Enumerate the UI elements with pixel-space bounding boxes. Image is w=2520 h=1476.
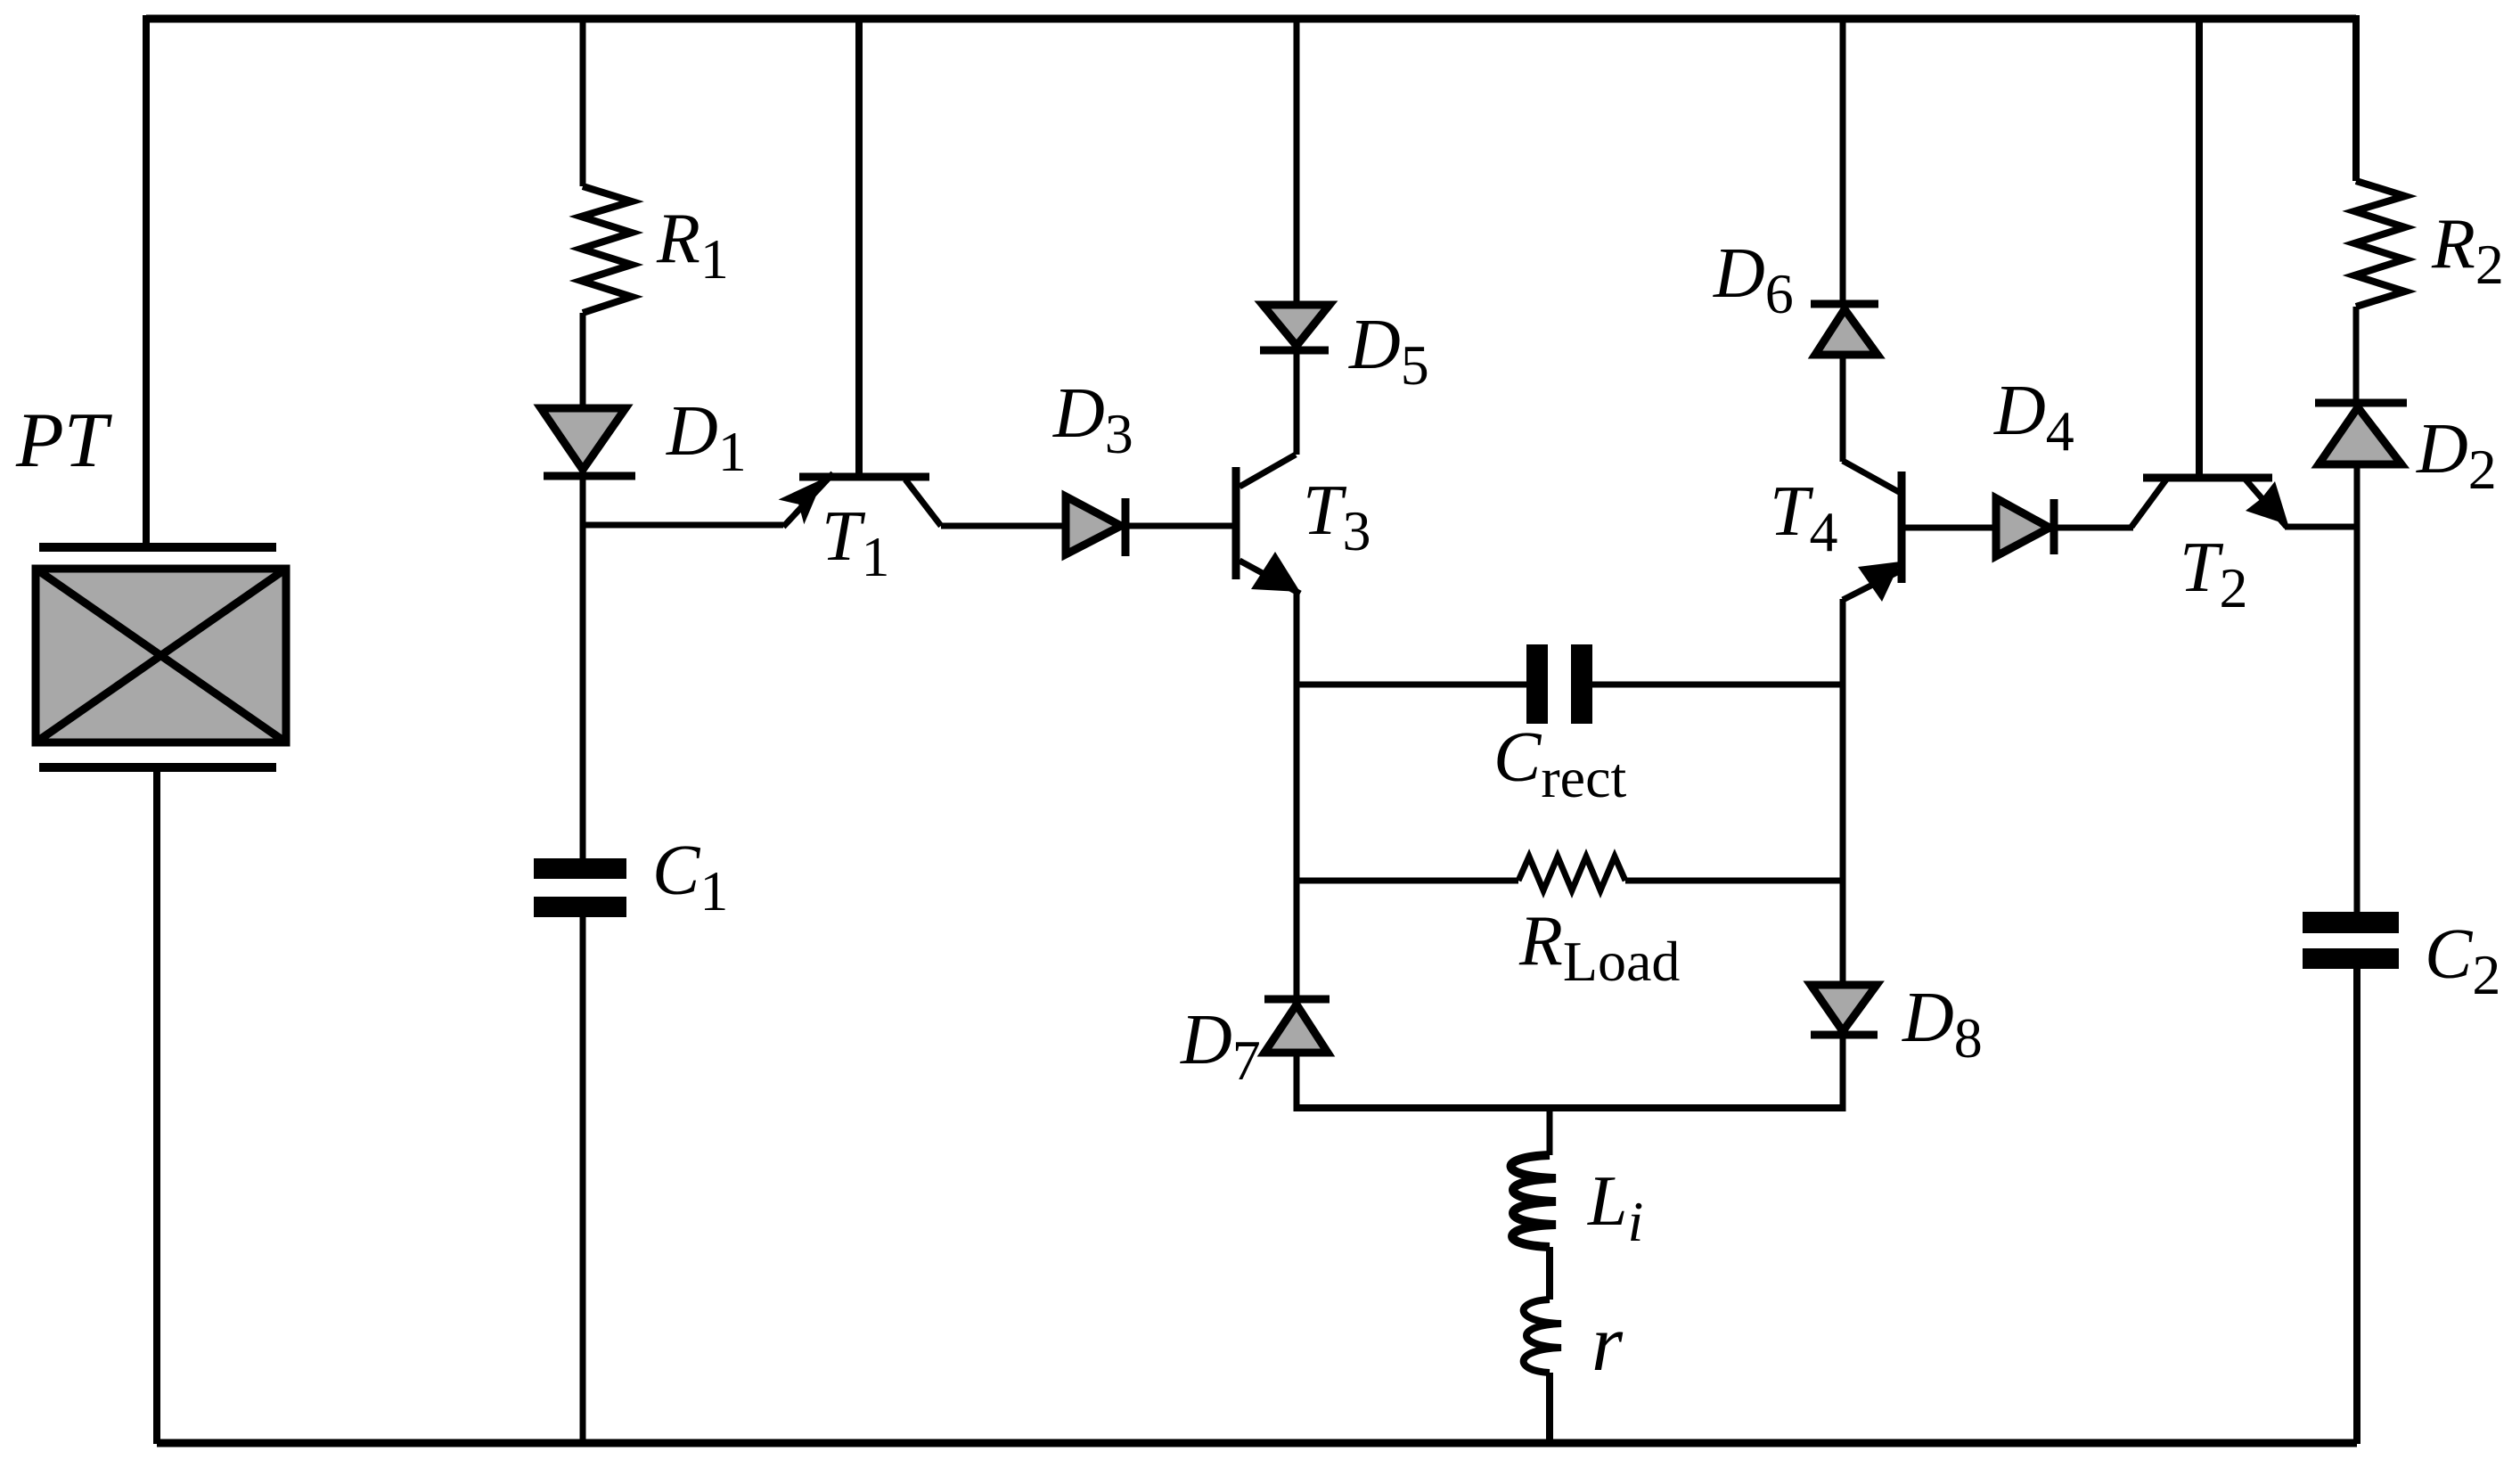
svg-text:D3: D3 <box>1052 374 1133 465</box>
svg-text:T4: T4 <box>1770 472 1838 563</box>
inductor Li <box>1511 1155 1556 1247</box>
wire R1 branch top <box>580 19 586 186</box>
wire T3 emitter down <box>1294 591 1300 998</box>
wire T1 to D3 <box>941 523 1066 529</box>
wire right rail top <box>2352 15 2360 181</box>
svg-text:D8: D8 <box>1902 979 1983 1070</box>
wire top rail <box>146 15 2356 23</box>
wire T2 emitter to right rail <box>2285 524 2358 530</box>
resistor R2 <box>2354 181 2405 307</box>
capacitor C2 <box>2303 912 2399 969</box>
diode D3 <box>1066 496 1125 556</box>
wire D6 top <box>1840 19 1846 305</box>
diode D4 <box>1996 498 2054 556</box>
wire left vertical (PT top lead) <box>143 15 150 545</box>
wire D1 to C1 <box>580 480 586 861</box>
transistor T4 <box>1843 461 1902 602</box>
wire D8 to rect bottom <box>1840 1035 1846 1111</box>
wire C2 to bottom rail <box>2353 969 2360 1444</box>
svg-text:T2: T2 <box>2180 529 2248 619</box>
wire base node to T1 emitter <box>583 522 783 529</box>
resistor r <box>1524 1300 1561 1373</box>
transistor T1 <box>779 19 942 527</box>
transistor T2 <box>2131 19 2288 527</box>
svg-text:D5: D5 <box>1348 306 1429 397</box>
wire PT bottom lead <box>153 771 160 1444</box>
svg-text:R2: R2 <box>2431 205 2504 296</box>
svg-text:R1: R1 <box>656 200 729 291</box>
resistor R1 <box>581 186 632 313</box>
diode D1 <box>541 408 635 476</box>
wire T4 emitter down <box>1840 599 1846 985</box>
wire D2 to C2 <box>2354 464 2360 912</box>
diode D7 <box>1264 999 1330 1053</box>
PT transformer box <box>36 569 286 742</box>
diode D6 <box>1811 304 1878 355</box>
wire bottom rail <box>157 1439 2357 1447</box>
wire rectifier bottom rail <box>1297 1104 1843 1111</box>
wire D4 to T2 collector <box>2054 525 2133 531</box>
svg-text:Crect: Crect <box>1493 718 1626 809</box>
wire T3 collector to D5 <box>1294 351 1300 455</box>
diode D2 <box>2315 403 2407 464</box>
svg-text:D7: D7 <box>1180 1001 1261 1092</box>
diode D8 <box>1811 985 1878 1035</box>
wire R_Load left <box>1297 878 1518 884</box>
wire C_rect right <box>1592 682 1843 688</box>
wire D3 to T3 base <box>1125 523 1233 529</box>
svg-text:D2: D2 <box>2416 410 2497 501</box>
capacitor C1 <box>534 858 626 917</box>
svg-text:Li: Li <box>1587 1162 1643 1253</box>
wire Li to r <box>1546 1247 1553 1300</box>
svg-text:D4: D4 <box>1993 372 2074 463</box>
svg-text:RLoad: RLoad <box>1518 902 1680 993</box>
capacitor C_rect <box>1526 644 1592 724</box>
PT bottom electrode plate <box>39 763 276 772</box>
diode D5 <box>1260 305 1330 350</box>
wire R2 to D2 <box>2353 307 2360 403</box>
wire R1 to D1 <box>580 313 586 408</box>
wire D7 to rect bottom <box>1294 1053 1300 1111</box>
svg-text:D6: D6 <box>1713 234 1794 325</box>
svg-text:T1: T1 <box>822 497 890 588</box>
svg-text:D1: D1 <box>666 392 747 483</box>
wire R_Load right <box>1625 878 1843 884</box>
svg-text:C2: C2 <box>2425 915 2500 1006</box>
wire C_rect left <box>1297 682 1526 688</box>
wire rect bottom to Li <box>1547 1108 1553 1155</box>
PT top electrode plate <box>39 543 276 552</box>
svg-text:T3: T3 <box>1303 471 1371 562</box>
svg-text:r: r <box>1591 1300 1624 1388</box>
resistor R_Load <box>1518 857 1625 890</box>
transistor T3 <box>1236 455 1300 594</box>
wire r to bottom rail <box>1546 1373 1553 1444</box>
wire C1 to bottom rail <box>580 917 586 1444</box>
wire D5 to top rail <box>1294 19 1300 305</box>
wire T4 base to D4 <box>1905 525 1996 531</box>
wire D6 to T4 collector <box>1840 355 1846 462</box>
svg-text:C1: C1 <box>652 832 728 922</box>
svg-text:PT: PT <box>15 398 113 484</box>
